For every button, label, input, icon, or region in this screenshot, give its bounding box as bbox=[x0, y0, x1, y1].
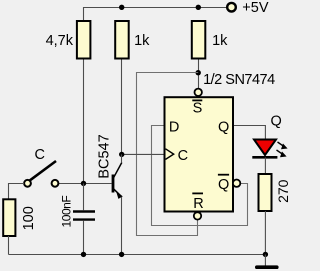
node junction collector bbox=[119, 152, 124, 157]
node junction top rail R2 bbox=[119, 5, 124, 10]
op-amp flip-flop U1 box bbox=[165, 97, 234, 211]
svg-text:100nF: 100nF bbox=[59, 196, 73, 228]
node junction base/cap bbox=[81, 181, 86, 186]
pin Qbar bubble bbox=[233, 180, 240, 187]
svg-text:Q: Q bbox=[218, 177, 229, 193]
wire clock from collector to C pin bbox=[122, 153, 165, 155]
wire tie S to R (preset/clear pull-up) bbox=[137, 73, 199, 236]
svg-text:100: 100 bbox=[21, 206, 37, 230]
resistor R2 1k bbox=[115, 21, 129, 59]
svg-text:S: S bbox=[193, 101, 203, 117]
pin S bubble bbox=[195, 89, 202, 96]
capacitor C1 100nF bbox=[73, 212, 95, 220]
node junction S tie bbox=[196, 70, 201, 75]
wire base node bbox=[58, 183, 111, 185]
svg-text:BC547: BC547 bbox=[96, 134, 112, 178]
wire top +5V rail bbox=[84, 8, 227, 22]
node junction cap/rail bbox=[81, 252, 86, 257]
wire cap bottom bbox=[83, 221, 85, 255]
terminal +5V bbox=[227, 3, 236, 12]
svg-text:Q: Q bbox=[271, 113, 282, 129]
svg-text:D: D bbox=[169, 119, 179, 135]
wire R2 bottom to collector bbox=[121, 59, 123, 155]
ground bbox=[257, 265, 277, 269]
pin R bubble bbox=[194, 212, 201, 219]
svg-text:C: C bbox=[35, 147, 45, 163]
wire Q output to LED bbox=[233, 126, 265, 140]
resistor R3 1k bbox=[192, 21, 206, 59]
svg-text:C: C bbox=[178, 148, 188, 164]
resistor R1 4,7k bbox=[77, 21, 91, 59]
resistor R5 100 bbox=[3, 199, 15, 236]
node junction top rail R3 bbox=[196, 5, 201, 10]
wire R5 to rail bbox=[8, 236, 10, 255]
svg-text:1/2 SN7474: 1/2 SN7474 bbox=[203, 72, 275, 88]
wire R3 bottom to S node bbox=[198, 59, 200, 89]
wire to ground symbol bbox=[264, 255, 266, 267]
wire cap top bbox=[83, 184, 85, 211]
wire collector up bbox=[121, 154, 123, 162]
wire D feedback loop from Qbar bbox=[152, 126, 248, 226]
wire R4 to ground rail bbox=[264, 211, 266, 255]
pin C clock chevron bbox=[166, 149, 174, 160]
transistor Q1 BC547 bbox=[113, 163, 123, 199]
svg-text:+5V: +5V bbox=[242, 0, 269, 16]
wire emitter down to rail bbox=[121, 197, 123, 255]
wire LED to R4 bbox=[264, 157, 266, 174]
resistor R4 270 bbox=[259, 174, 272, 211]
switch S1 bbox=[24, 161, 58, 187]
LED D1 bbox=[252, 140, 287, 158]
svg-text:Q: Q bbox=[218, 119, 229, 135]
node junction ground bbox=[263, 252, 268, 257]
svg-text:1k: 1k bbox=[134, 33, 150, 49]
wire ground rail bbox=[9, 254, 266, 256]
svg-text:4,7k: 4,7k bbox=[46, 33, 74, 49]
svg-text:270: 270 bbox=[275, 179, 290, 203]
svg-text:R: R bbox=[193, 196, 203, 212]
wire R1 bottom to base node bbox=[83, 59, 85, 184]
svg-text:1k: 1k bbox=[212, 33, 228, 49]
wire switch left to R5 bbox=[9, 184, 25, 200]
node junction emitter/rail bbox=[119, 252, 124, 257]
